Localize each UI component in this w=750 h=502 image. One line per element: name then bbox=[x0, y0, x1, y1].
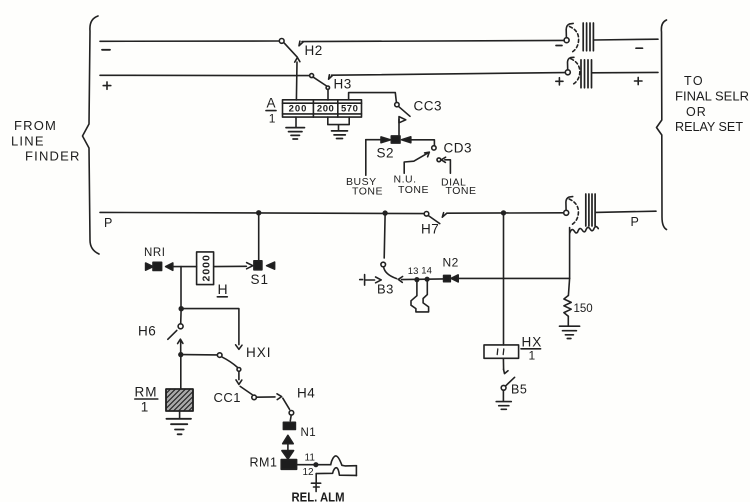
contact S2 bbox=[366, 139, 381, 141]
jack J3 P line bbox=[564, 210, 569, 215]
svg-text:TONE: TONE bbox=[398, 184, 429, 196]
svg-text:FINAL SELR: FINAL SELR bbox=[675, 90, 749, 104]
ground under RM resistor bbox=[179, 411, 181, 418]
node junction P-HX bbox=[502, 211, 506, 215]
wire branch down from H coil wire bbox=[180, 267, 182, 309]
svg-text:H2: H2 bbox=[305, 43, 323, 58]
svg-text:HX: HX bbox=[522, 335, 543, 350]
winding below J3 bbox=[569, 228, 571, 279]
svg-text:1: 1 bbox=[269, 112, 276, 126]
svg-text:1: 1 bbox=[529, 349, 536, 363]
right brace (to final selr) bbox=[657, 20, 667, 230]
svg-text:200: 200 bbox=[289, 103, 308, 114]
resistor 150 bbox=[568, 278, 569, 295]
wire P line left bbox=[100, 212, 424, 213]
wire 570 winding to CC3 bbox=[349, 93, 397, 103]
wire P to S1 bbox=[258, 215, 260, 260]
arrows between N1 and RM1 bbox=[283, 435, 294, 443]
svg-text:RM1: RM1 bbox=[250, 456, 278, 470]
svg-text:RELAY SET: RELAY SET bbox=[675, 120, 743, 134]
svg-text:NRI: NRI bbox=[144, 247, 166, 259]
left brace (from line finder) bbox=[83, 16, 100, 254]
svg-text:14: 14 bbox=[421, 266, 432, 277]
coil REL ALM winding 1 bbox=[331, 456, 357, 466]
svg-text:TONE: TONE bbox=[446, 185, 477, 197]
svg-text:H3: H3 bbox=[334, 77, 352, 92]
node contact 13 bbox=[415, 278, 419, 282]
coil A1 box bbox=[283, 100, 362, 117]
ground rel alm bbox=[311, 483, 320, 491]
svg-text:OR: OR bbox=[686, 105, 707, 119]
svg-text:B5: B5 bbox=[511, 383, 527, 397]
wire H2 to A coil bbox=[295, 62, 298, 100]
wire H6 junction to RM resistor bbox=[180, 356, 182, 389]
coil HX1 bbox=[484, 345, 519, 358]
svg-text:11: 11 bbox=[305, 453, 316, 464]
contact CC3 bbox=[395, 102, 399, 106]
node junction P-B3 bbox=[383, 211, 387, 215]
wire plus line right of H3 bbox=[332, 73, 566, 76]
svg-text:S2: S2 bbox=[377, 146, 395, 161]
svg-text:12: 12 bbox=[303, 467, 315, 478]
node plus label left bbox=[103, 82, 111, 89]
svg-text:REL. ALM: REL. ALM bbox=[292, 491, 345, 502]
wire RM1 to alarm coil bbox=[297, 464, 331, 466]
contact B3 bbox=[381, 262, 386, 267]
node contact 14 bbox=[425, 277, 429, 281]
wire minus line right of H2 bbox=[302, 40, 564, 41]
contact S1 bbox=[214, 265, 247, 267]
contact RM1 bbox=[281, 460, 296, 470]
contact H4 bbox=[289, 411, 294, 416]
svg-text:LINE: LINE bbox=[11, 134, 45, 149]
svg-text:H7: H7 bbox=[421, 222, 439, 237]
wire P to B3 bbox=[383, 215, 386, 258]
svg-text:CC1: CC1 bbox=[214, 390, 242, 405]
svg-text:RM: RM bbox=[135, 385, 158, 400]
resistor RM1 (hatched) bbox=[166, 389, 193, 411]
contact H3 bbox=[310, 74, 314, 78]
contact N2 bbox=[444, 275, 451, 281]
svg-text:H: H bbox=[218, 281, 228, 297]
ground under A windings 2-3 bbox=[328, 117, 349, 130]
svg-text:B3: B3 bbox=[377, 282, 394, 297]
svg-text:1: 1 bbox=[141, 400, 149, 415]
svg-text:TO: TO bbox=[684, 74, 704, 88]
strap link 13-14 bbox=[411, 281, 429, 312]
svg-text:H6: H6 bbox=[138, 324, 156, 339]
contact chain CC1 bbox=[217, 353, 222, 358]
contact H2 bbox=[279, 39, 284, 44]
wire P to HX coil bbox=[503, 215, 505, 345]
wire N2 to winding bbox=[458, 277, 570, 279]
contact H6 bbox=[178, 324, 183, 329]
jack J2 plus line bbox=[565, 70, 570, 75]
node junction H6-CC1 bbox=[179, 353, 183, 357]
wire 12 to ground bbox=[315, 474, 317, 483]
svg-text:CD3: CD3 bbox=[444, 141, 473, 156]
svg-text:P: P bbox=[631, 215, 639, 229]
contact B5 bbox=[502, 358, 504, 369]
node junction 11 bbox=[314, 463, 318, 467]
ground under A winding 1 bbox=[295, 117, 297, 127]
contact CD3 bbox=[432, 146, 436, 150]
wire H3 to A coil bbox=[327, 90, 329, 100]
svg-text:N1: N1 bbox=[301, 427, 317, 439]
jack J1 minus line bbox=[564, 38, 569, 43]
svg-text:570: 570 bbox=[341, 103, 358, 114]
wire minus line left bbox=[100, 40, 279, 42]
contact N1 bbox=[289, 415, 292, 421]
wire plus line left bbox=[100, 74, 310, 76]
coil H 2000 bbox=[197, 252, 214, 285]
svg-text:CC3: CC3 bbox=[414, 99, 443, 114]
svg-text:TONE: TONE bbox=[352, 186, 383, 198]
svg-text:N2: N2 bbox=[443, 256, 459, 270]
svg-text:S1: S1 bbox=[251, 272, 270, 287]
wire to HX1 bbox=[181, 309, 239, 345]
wire to CC1 bbox=[183, 354, 217, 356]
node junction P-S1 bbox=[257, 211, 261, 215]
svg-text:200: 200 bbox=[317, 103, 334, 114]
svg-text:150: 150 bbox=[574, 303, 593, 315]
svg-text:P: P bbox=[104, 216, 112, 230]
wire B3 to N2 bbox=[402, 278, 444, 281]
ground under B5 bbox=[502, 390, 504, 401]
wire junction to H6 bbox=[180, 310, 182, 323]
contact H7 bbox=[424, 212, 429, 217]
svg-text:FINDER: FINDER bbox=[25, 149, 81, 164]
svg-text:13: 13 bbox=[408, 266, 419, 277]
svg-text:H4: H4 bbox=[297, 386, 315, 401]
svg-text:FROM: FROM bbox=[14, 118, 57, 133]
node junction HX1 branch bbox=[179, 307, 183, 311]
node minus label left bbox=[102, 49, 110, 51]
svg-text:HXI: HXI bbox=[246, 345, 272, 360]
ground under 150 bbox=[567, 316, 569, 325]
svg-text:A: A bbox=[267, 96, 276, 111]
svg-text:2000: 2000 bbox=[201, 254, 213, 281]
flag on S2 bbox=[398, 119, 400, 135]
